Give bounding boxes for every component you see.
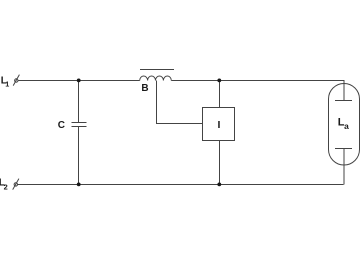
svg-text:a: a (344, 121, 349, 131)
svg-text:I: I (218, 119, 221, 131)
svg-text:B: B (141, 83, 148, 94)
svg-text:C: C (58, 120, 65, 131)
svg-text:1: 1 (5, 80, 9, 89)
svg-text:2: 2 (4, 182, 8, 191)
